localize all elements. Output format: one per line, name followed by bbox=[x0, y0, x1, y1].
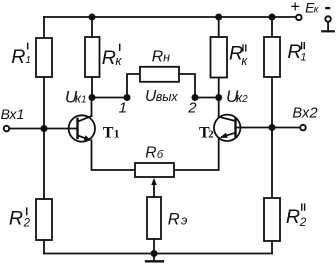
svg-text:2: 2 bbox=[187, 100, 197, 117]
svg-text:R: R bbox=[286, 206, 300, 228]
wire T2 base to Bx2 terminal bbox=[236, 127, 300, 129]
label T2 bbox=[199, 125, 214, 142]
svg-text:R: R bbox=[145, 145, 156, 162]
terminal -Ek bbox=[325, 16, 331, 22]
wire R1'' top lead bbox=[271, 17, 273, 37]
svg-text:н: н bbox=[163, 50, 170, 64]
resistor R1' bbox=[36, 38, 52, 77]
svg-text:2: 2 bbox=[299, 217, 307, 229]
svg-text:R: R bbox=[102, 47, 116, 69]
label Uvyx bbox=[145, 88, 178, 105]
svg-text:R: R bbox=[152, 48, 163, 65]
wire Rk' bottom lead to Uk1 bbox=[91, 77, 93, 98]
svg-text:2: 2 bbox=[208, 129, 214, 141]
node 1 bbox=[124, 94, 131, 101]
svg-text:2: 2 bbox=[23, 218, 31, 230]
wire node1 up to Rn bbox=[127, 74, 140, 98]
node Bx2 junction bbox=[269, 124, 276, 131]
wire top rail bbox=[44, 16, 296, 18]
label Re bbox=[168, 211, 188, 229]
label R1' bbox=[11, 43, 31, 68]
label T1 bbox=[103, 124, 120, 141]
svg-text:к: к bbox=[115, 53, 122, 68]
wire R2'' bottom lead bbox=[271, 241, 273, 254]
svg-text:э: э bbox=[181, 213, 187, 228]
svg-text:2: 2 bbox=[241, 94, 248, 105]
wire R2'' top lead bbox=[271, 128, 273, 199]
label Uk1 bbox=[65, 88, 87, 107]
node ground junction bbox=[151, 250, 158, 257]
wire R1' bottom to Bx1 node bbox=[43, 77, 45, 129]
label Rb bbox=[145, 145, 164, 162]
svg-text:вых: вых bbox=[156, 90, 179, 104]
wire -Ek end bar bbox=[322, 30, 334, 32]
wire bottom rail bbox=[44, 253, 272, 255]
resistor R2'' bbox=[264, 198, 280, 241]
node Bx1 junction bbox=[41, 125, 48, 132]
label R1'' bbox=[287, 41, 306, 64]
label Rn bbox=[152, 48, 170, 65]
terminal Bx2 bbox=[300, 125, 306, 131]
wire left column top (rail corner down to R1') bbox=[43, 17, 45, 38]
node Uk1 bbox=[89, 94, 96, 101]
transistor T2 bbox=[214, 115, 240, 141]
ground bbox=[153, 254, 155, 262]
resistor Rb (potentiometer body) bbox=[135, 163, 174, 177]
node junction R1'' on rail bbox=[269, 14, 276, 21]
resistor R2' bbox=[36, 199, 52, 240]
transistor T1 bbox=[69, 115, 95, 141]
svg-text:1: 1 bbox=[114, 126, 120, 140]
resistor Rk' bbox=[85, 37, 100, 77]
wire Bx1 node down to R2' bbox=[43, 129, 45, 200]
svg-text:R: R bbox=[168, 211, 180, 229]
wire wiper with arrow bbox=[153, 182, 155, 197]
node junction Rk' on rail bbox=[89, 14, 96, 21]
node Uk2 bbox=[215, 94, 222, 101]
wire Rk' top lead bbox=[91, 17, 93, 37]
terminal Bx1 bbox=[4, 126, 10, 132]
svg-text:Вх2: Вх2 bbox=[292, 105, 318, 121]
label R2'' bbox=[286, 203, 307, 229]
wire Rk'' top lead bbox=[218, 17, 220, 37]
label R2' bbox=[9, 207, 31, 229]
resistor Re bbox=[147, 197, 161, 239]
wire Re bottom lead bbox=[153, 239, 155, 254]
svg-text:1: 1 bbox=[119, 100, 127, 117]
node junction Rk'' on rail bbox=[215, 14, 222, 21]
resistor R1'' bbox=[264, 37, 280, 77]
resistor Rn bbox=[140, 67, 179, 82]
wire Rn right to node 2 bbox=[179, 74, 195, 98]
node 2 bbox=[192, 94, 199, 101]
svg-text:R: R bbox=[11, 46, 25, 68]
wire T2 collector bbox=[218, 98, 220, 117]
svg-text:T: T bbox=[103, 124, 114, 141]
wire R2' bottom to bottom rail bbox=[43, 240, 45, 254]
svg-text:+: + bbox=[290, 0, 300, 16]
svg-text:1: 1 bbox=[81, 95, 87, 106]
wire R1'' bottom lead bbox=[271, 77, 273, 128]
label + Ek - bbox=[290, 0, 330, 16]
wire node2 to Uk2 bbox=[195, 97, 219, 99]
wire Uk1 to node 1 bbox=[92, 97, 127, 99]
wire Rk'' bottom lead bbox=[218, 78, 220, 98]
resistor Rk'' bbox=[211, 37, 228, 78]
svg-text:1: 1 bbox=[300, 52, 306, 64]
wire T2 emitter down and to Rb bbox=[174, 138, 219, 170]
wire Bx1 to T1 base bbox=[10, 128, 78, 130]
label Rk' bbox=[102, 44, 123, 70]
wire T1 collector bbox=[91, 98, 93, 117]
label Rk'' bbox=[229, 43, 248, 68]
label Uk2 bbox=[226, 87, 248, 106]
wire -Ek stem bbox=[327, 22, 329, 31]
terminal +Ek bbox=[296, 15, 302, 21]
svg-text:б: б bbox=[157, 149, 164, 161]
svg-text:R: R bbox=[9, 207, 23, 229]
svg-text:Вх1: Вх1 bbox=[1, 106, 25, 122]
svg-text:1: 1 bbox=[25, 55, 31, 66]
wire T1 emitter down and to Rb bbox=[92, 140, 136, 170]
